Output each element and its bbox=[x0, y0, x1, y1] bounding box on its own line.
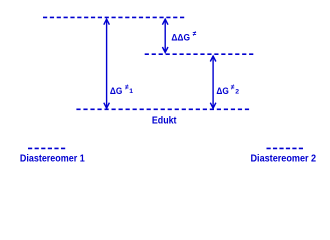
arrow ddG (double-headed, TS1 to TS2) bbox=[162, 19, 168, 52]
svg-text:2: 2 bbox=[235, 89, 239, 96]
svg-text:Diastereomer 2: Diastereomer 2 bbox=[251, 154, 317, 165]
arrow dG2 (double-headed, TS2 to Edukt) bbox=[210, 56, 216, 108]
level TS2 (second transition state, dashed) bbox=[145, 53, 254, 55]
svg-text:ΔG: ΔG bbox=[216, 86, 228, 96]
svg-text:≠: ≠ bbox=[231, 83, 235, 92]
level Edukt (reactant level, dashed) bbox=[76, 108, 249, 110]
svg-text:1: 1 bbox=[129, 88, 133, 95]
level Diastereomer 2 (bottom right, dashed) bbox=[267, 147, 304, 149]
svg-text:ΔG: ΔG bbox=[110, 86, 122, 96]
level TS1 (top transition state, dashed) bbox=[43, 16, 184, 18]
svg-text:Edukt: Edukt bbox=[152, 116, 177, 127]
svg-text:Diastereomer 1: Diastereomer 1 bbox=[20, 154, 85, 165]
arrow dG1 (double-headed, TS1 to Edukt) bbox=[104, 19, 110, 108]
level Diastereomer 1 (bottom left, dashed) bbox=[28, 147, 65, 149]
svg-text:ΔΔG: ΔΔG bbox=[171, 33, 190, 43]
svg-text:≠: ≠ bbox=[193, 29, 197, 38]
